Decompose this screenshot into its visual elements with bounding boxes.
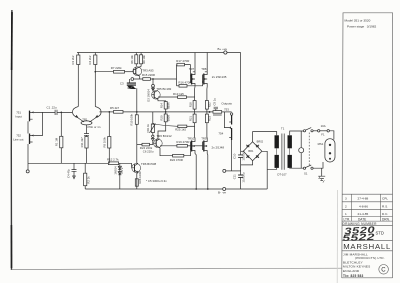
svg-text:C10: C10 xyxy=(233,153,237,159)
resistor R7 xyxy=(111,66,134,73)
node B+ xyxy=(224,51,227,54)
resistor R9 xyxy=(103,112,111,163)
node input/R1 junction xyxy=(60,112,62,114)
node R9 top xyxy=(108,111,110,113)
svg-text:BR1: BR1 xyxy=(248,149,254,153)
svg-text:680R: 680R xyxy=(166,102,170,108)
svg-text:MS1: MS1 xyxy=(318,142,324,146)
svg-text:R8 10k: R8 10k xyxy=(142,55,146,64)
svg-text:R2 1k: R2 1k xyxy=(87,176,91,184)
svg-text:S1: S1 xyxy=(304,171,308,175)
resistor R19 xyxy=(160,140,203,147)
svg-text:R7 220k: R7 220k xyxy=(111,66,122,70)
svg-text:Line out: Line out xyxy=(13,138,23,142)
PAGE BORDERS xyxy=(11,10,342,283)
resistor R14 680R xyxy=(159,102,170,115)
node B- xyxy=(223,188,226,191)
svg-text:ENGLAND: ENGLAND xyxy=(343,269,360,273)
svg-text:C11: C11 xyxy=(233,174,237,179)
svg-text:4-8-86: 4-8-86 xyxy=(359,205,368,209)
wire jack sleeve bus xyxy=(27,121,29,170)
svg-text:10A: 10A xyxy=(321,124,326,128)
svg-text:Tlx: 825 583: Tlx: 825 583 xyxy=(343,274,364,278)
svg-text:R11 4k7: R11 4k7 xyxy=(80,137,84,148)
resistor R5 xyxy=(110,106,123,113)
svg-text:* C5 3300u 6.3v: * C5 3300u 6.3v xyxy=(146,179,167,183)
transformer T1 xyxy=(275,127,292,177)
svg-text:R14: R14 xyxy=(159,103,163,108)
svg-text:TR5 BC182: TR5 BC182 xyxy=(156,87,171,91)
jack 752 line out xyxy=(13,133,34,144)
wire secondary bottom lead xyxy=(267,168,277,169)
svg-text:R10 100k: R10 100k xyxy=(129,113,133,125)
svg-text:TR6 BC538: TR6 BC538 xyxy=(141,162,156,166)
diodes D1 D2 xyxy=(114,163,125,189)
wire jack sleeve to 0V xyxy=(231,140,233,171)
fuse F1 xyxy=(313,124,334,139)
wire B- rail xyxy=(85,188,267,190)
svg-text:C3: C3 xyxy=(120,82,124,86)
node D3 top xyxy=(152,78,154,80)
capacitor C3 cluster xyxy=(120,79,136,89)
svg-text:3: 3 xyxy=(345,197,347,201)
svg-text:R17 470R: R17 470R xyxy=(176,59,189,63)
svg-text:R22 470R: R22 470R xyxy=(170,158,183,162)
revision table grid xyxy=(342,194,393,225)
svg-text:TR9: TR9 xyxy=(201,137,207,141)
jack 754 xyxy=(218,112,232,140)
svg-text:TR3 A93: TR3 A93 xyxy=(142,68,154,72)
capacitor C1 xyxy=(47,106,58,115)
resistor R21 source xyxy=(189,112,197,138)
svg-text:Power stage 3/1982: Power stage 3/1982 xyxy=(347,24,377,28)
svg-text:753: 753 xyxy=(224,108,229,112)
svg-text:R5 4k7: R5 4k7 xyxy=(110,106,120,110)
capacitor C10 xyxy=(233,150,246,175)
node chassis terminal xyxy=(26,170,29,173)
TITLE BLOCK xyxy=(342,13,393,279)
resistor R1 xyxy=(55,112,63,163)
mosfet TR10 xyxy=(187,137,195,154)
resistor R10 xyxy=(129,113,138,125)
svg-text:TR1: TR1 xyxy=(82,118,88,122)
svg-text:R20: R20 xyxy=(159,115,163,120)
wire 0V tap xyxy=(226,170,241,172)
wire R7 feed xyxy=(95,71,113,73)
svg-text:R22: R22 xyxy=(207,102,211,107)
svg-text:LTR.: LTR. xyxy=(344,217,351,221)
resistor R23 source xyxy=(205,112,211,138)
svg-text:C1 .22u: C1 .22u xyxy=(47,106,58,110)
svg-text:B- -ve: B- -ve xyxy=(218,191,226,195)
svg-text:R16 470R: R16 470R xyxy=(178,80,191,84)
transistor TR3 xyxy=(133,67,154,77)
svg-text:R25 1k5: R25 1k5 xyxy=(175,128,186,132)
svg-text:C: C xyxy=(381,268,386,274)
svg-text:1N914: 1N914 xyxy=(114,166,118,175)
svg-text:STD: STD xyxy=(376,231,384,236)
svg-text:R15 220R: R15 220R xyxy=(142,73,155,77)
wire feedback line xyxy=(100,111,214,113)
svg-text:754: 754 xyxy=(218,131,223,135)
resistor R17 xyxy=(176,59,190,77)
copyright symbol xyxy=(379,265,389,275)
jack 751 input xyxy=(15,111,33,122)
svg-text:D1 2: D1 2 xyxy=(120,167,124,173)
mosfet TR8 xyxy=(201,67,207,87)
capacitor C9 xyxy=(212,98,218,111)
resistor R13 xyxy=(158,92,195,99)
capacitor C2 xyxy=(84,134,89,136)
B+ supply rail xyxy=(77,52,241,54)
svg-text:DRN.: DRN. xyxy=(382,217,390,221)
svg-text:Outputs: Outputs xyxy=(221,101,232,105)
resistor R16 xyxy=(177,80,203,87)
resistor R18 source xyxy=(189,87,197,112)
resistor R8 xyxy=(139,53,146,68)
switch link dashed xyxy=(308,133,310,167)
svg-text:R.S.: R.S. xyxy=(382,205,388,209)
wire gate branch xyxy=(176,65,178,86)
svg-text:C4 47p: C4 47p xyxy=(67,169,71,178)
switch S1 pole A xyxy=(303,128,313,132)
wire TR1 tail xyxy=(86,125,88,133)
svg-text:2: 2 xyxy=(345,205,347,209)
svg-text:T1: T1 xyxy=(281,127,285,131)
svg-text:TR6 BC212: TR6 BC212 xyxy=(157,134,172,138)
scan fold artifact line xyxy=(336,190,338,283)
wire primary top xyxy=(290,131,304,135)
svg-text:CPL: CPL xyxy=(382,197,388,201)
wire primary bottom xyxy=(290,167,304,169)
resistor R3 xyxy=(71,53,80,107)
resistor R20 680R xyxy=(158,114,170,139)
transistor TR6 BC212 xyxy=(154,134,172,148)
svg-text:27-4-88: 27-4-88 xyxy=(358,197,369,201)
svg-text:TR10: TR10 xyxy=(187,137,194,141)
trimmer VR1 xyxy=(146,112,156,135)
capacitor C11 xyxy=(233,172,246,189)
node output junction xyxy=(209,111,211,113)
svg-text:R3 2k2: R3 2k2 xyxy=(71,55,75,64)
wire switch to MS1 xyxy=(313,162,323,168)
resistor R14b 1k5 xyxy=(152,123,194,132)
wire lower drain join xyxy=(195,154,208,190)
svg-text:R4 2k2: R4 2k2 xyxy=(88,55,92,64)
resistor R15 xyxy=(142,73,177,80)
wire bridge ac bottom xyxy=(241,161,253,165)
svg-text:R26 100R: R26 100R xyxy=(138,171,142,183)
wire bridge ac top xyxy=(253,132,277,142)
bridge rectifier BR1 xyxy=(243,139,263,160)
jack 753 xyxy=(224,108,233,125)
svg-text:R18: R18 xyxy=(189,102,193,107)
inductor L1 Zobel xyxy=(213,111,232,115)
wire bridge plus stub xyxy=(241,150,244,152)
resistor R22 xyxy=(160,148,190,162)
transistor TR6 BC538 xyxy=(132,162,157,189)
wire mid vertical bus xyxy=(136,88,138,163)
svg-text:TR7: TR7 xyxy=(189,67,195,71)
wire input line xyxy=(34,111,72,113)
ground earth symbol xyxy=(318,168,325,182)
switch S1 pole B xyxy=(303,165,313,175)
wire bridge minus xyxy=(262,151,267,189)
line above marshall box xyxy=(342,241,393,251)
wire 0V line xyxy=(28,162,132,164)
svg-text:R6 10k: R6 10k xyxy=(130,55,134,64)
svg-text:Input: Input xyxy=(15,114,22,118)
svg-text:10,000u: 10,000u xyxy=(242,172,246,183)
svg-text:VR1 1k: VR1 1k xyxy=(146,123,150,132)
left page border line xyxy=(10,10,13,270)
node R7 tap xyxy=(94,71,96,73)
svg-text:R21: R21 xyxy=(189,116,193,121)
node 0V terminal xyxy=(223,169,226,172)
title block outer box xyxy=(342,13,393,279)
node test point xyxy=(131,78,134,81)
wire TR8 drain to rail xyxy=(205,53,207,72)
svg-text:R23: R23 xyxy=(207,116,211,121)
wire line-out tap xyxy=(34,112,43,135)
svg-text:1: 1 xyxy=(345,212,347,216)
resistor R6 xyxy=(130,53,138,67)
svg-text:R12 2.7k: R12 2.7k xyxy=(107,157,119,161)
resistor R12 xyxy=(107,157,119,164)
transistor TR1 dual pair xyxy=(73,107,102,125)
svg-text:21-4-85: 21-4-85 xyxy=(358,212,369,216)
resistor R26 xyxy=(135,171,142,186)
transistor TR5 xyxy=(152,87,172,100)
svg-text:D3 1N914: D3 1N914 xyxy=(147,89,151,102)
svg-text:R9 100k: R9 100k xyxy=(103,136,107,147)
lamp neon xyxy=(299,131,304,168)
svg-text:680R: 680R xyxy=(166,115,170,121)
resistor R2 xyxy=(84,163,91,189)
svg-text:MARSHALL: MARSHALL xyxy=(343,242,391,251)
resistor R24 xyxy=(137,143,153,150)
resistor R20b source xyxy=(205,87,211,112)
wire B+ drop xyxy=(240,53,242,155)
bottom page border line xyxy=(12,268,342,269)
svg-text:2x 2SK135: 2x 2SK135 xyxy=(212,75,227,79)
svg-text:D.C.: D.C. xyxy=(382,212,388,216)
svg-text:F1: F1 xyxy=(321,132,325,136)
node VR1 bottom xyxy=(152,135,154,137)
svg-text:C6 220u: C6 220u xyxy=(143,150,154,154)
svg-text:R19 470R: R19 470R xyxy=(176,140,189,144)
mosfet TR7 xyxy=(189,67,195,87)
svg-text:Model 351 or 3520: Model 351 or 3520 xyxy=(345,19,371,23)
wire TR5 emitter to chain xyxy=(158,100,166,102)
diode D4 xyxy=(151,138,154,145)
svg-text:DATE: DATE xyxy=(358,217,366,221)
resistor R4 xyxy=(88,53,97,107)
svg-text:B+ +ve: B+ +ve xyxy=(218,47,228,51)
mosfet TR9 xyxy=(201,137,207,154)
mains connector MS1 xyxy=(318,139,335,162)
svg-text:TR8: TR8 xyxy=(201,67,207,71)
svg-text:BR02: BR02 xyxy=(257,139,264,143)
svg-text:470n or 1n: 470n or 1n xyxy=(87,125,101,129)
wire TR7 drain to rail xyxy=(193,53,195,72)
svg-text:2x 2SJ48: 2x 2SJ48 xyxy=(212,146,225,150)
svg-text:DT-107: DT-107 xyxy=(277,173,287,177)
resistor R11 xyxy=(80,135,88,163)
svg-text:C9 1u: C9 1u xyxy=(212,98,216,106)
svg-text:R13 1k5: R13 1k5 xyxy=(173,92,184,96)
diode D3 xyxy=(147,79,155,102)
capacitor C4 xyxy=(67,163,77,178)
wire TR3 emitter to R15 xyxy=(132,76,143,79)
svg-text:R1 1M: R1 1M xyxy=(55,137,59,146)
